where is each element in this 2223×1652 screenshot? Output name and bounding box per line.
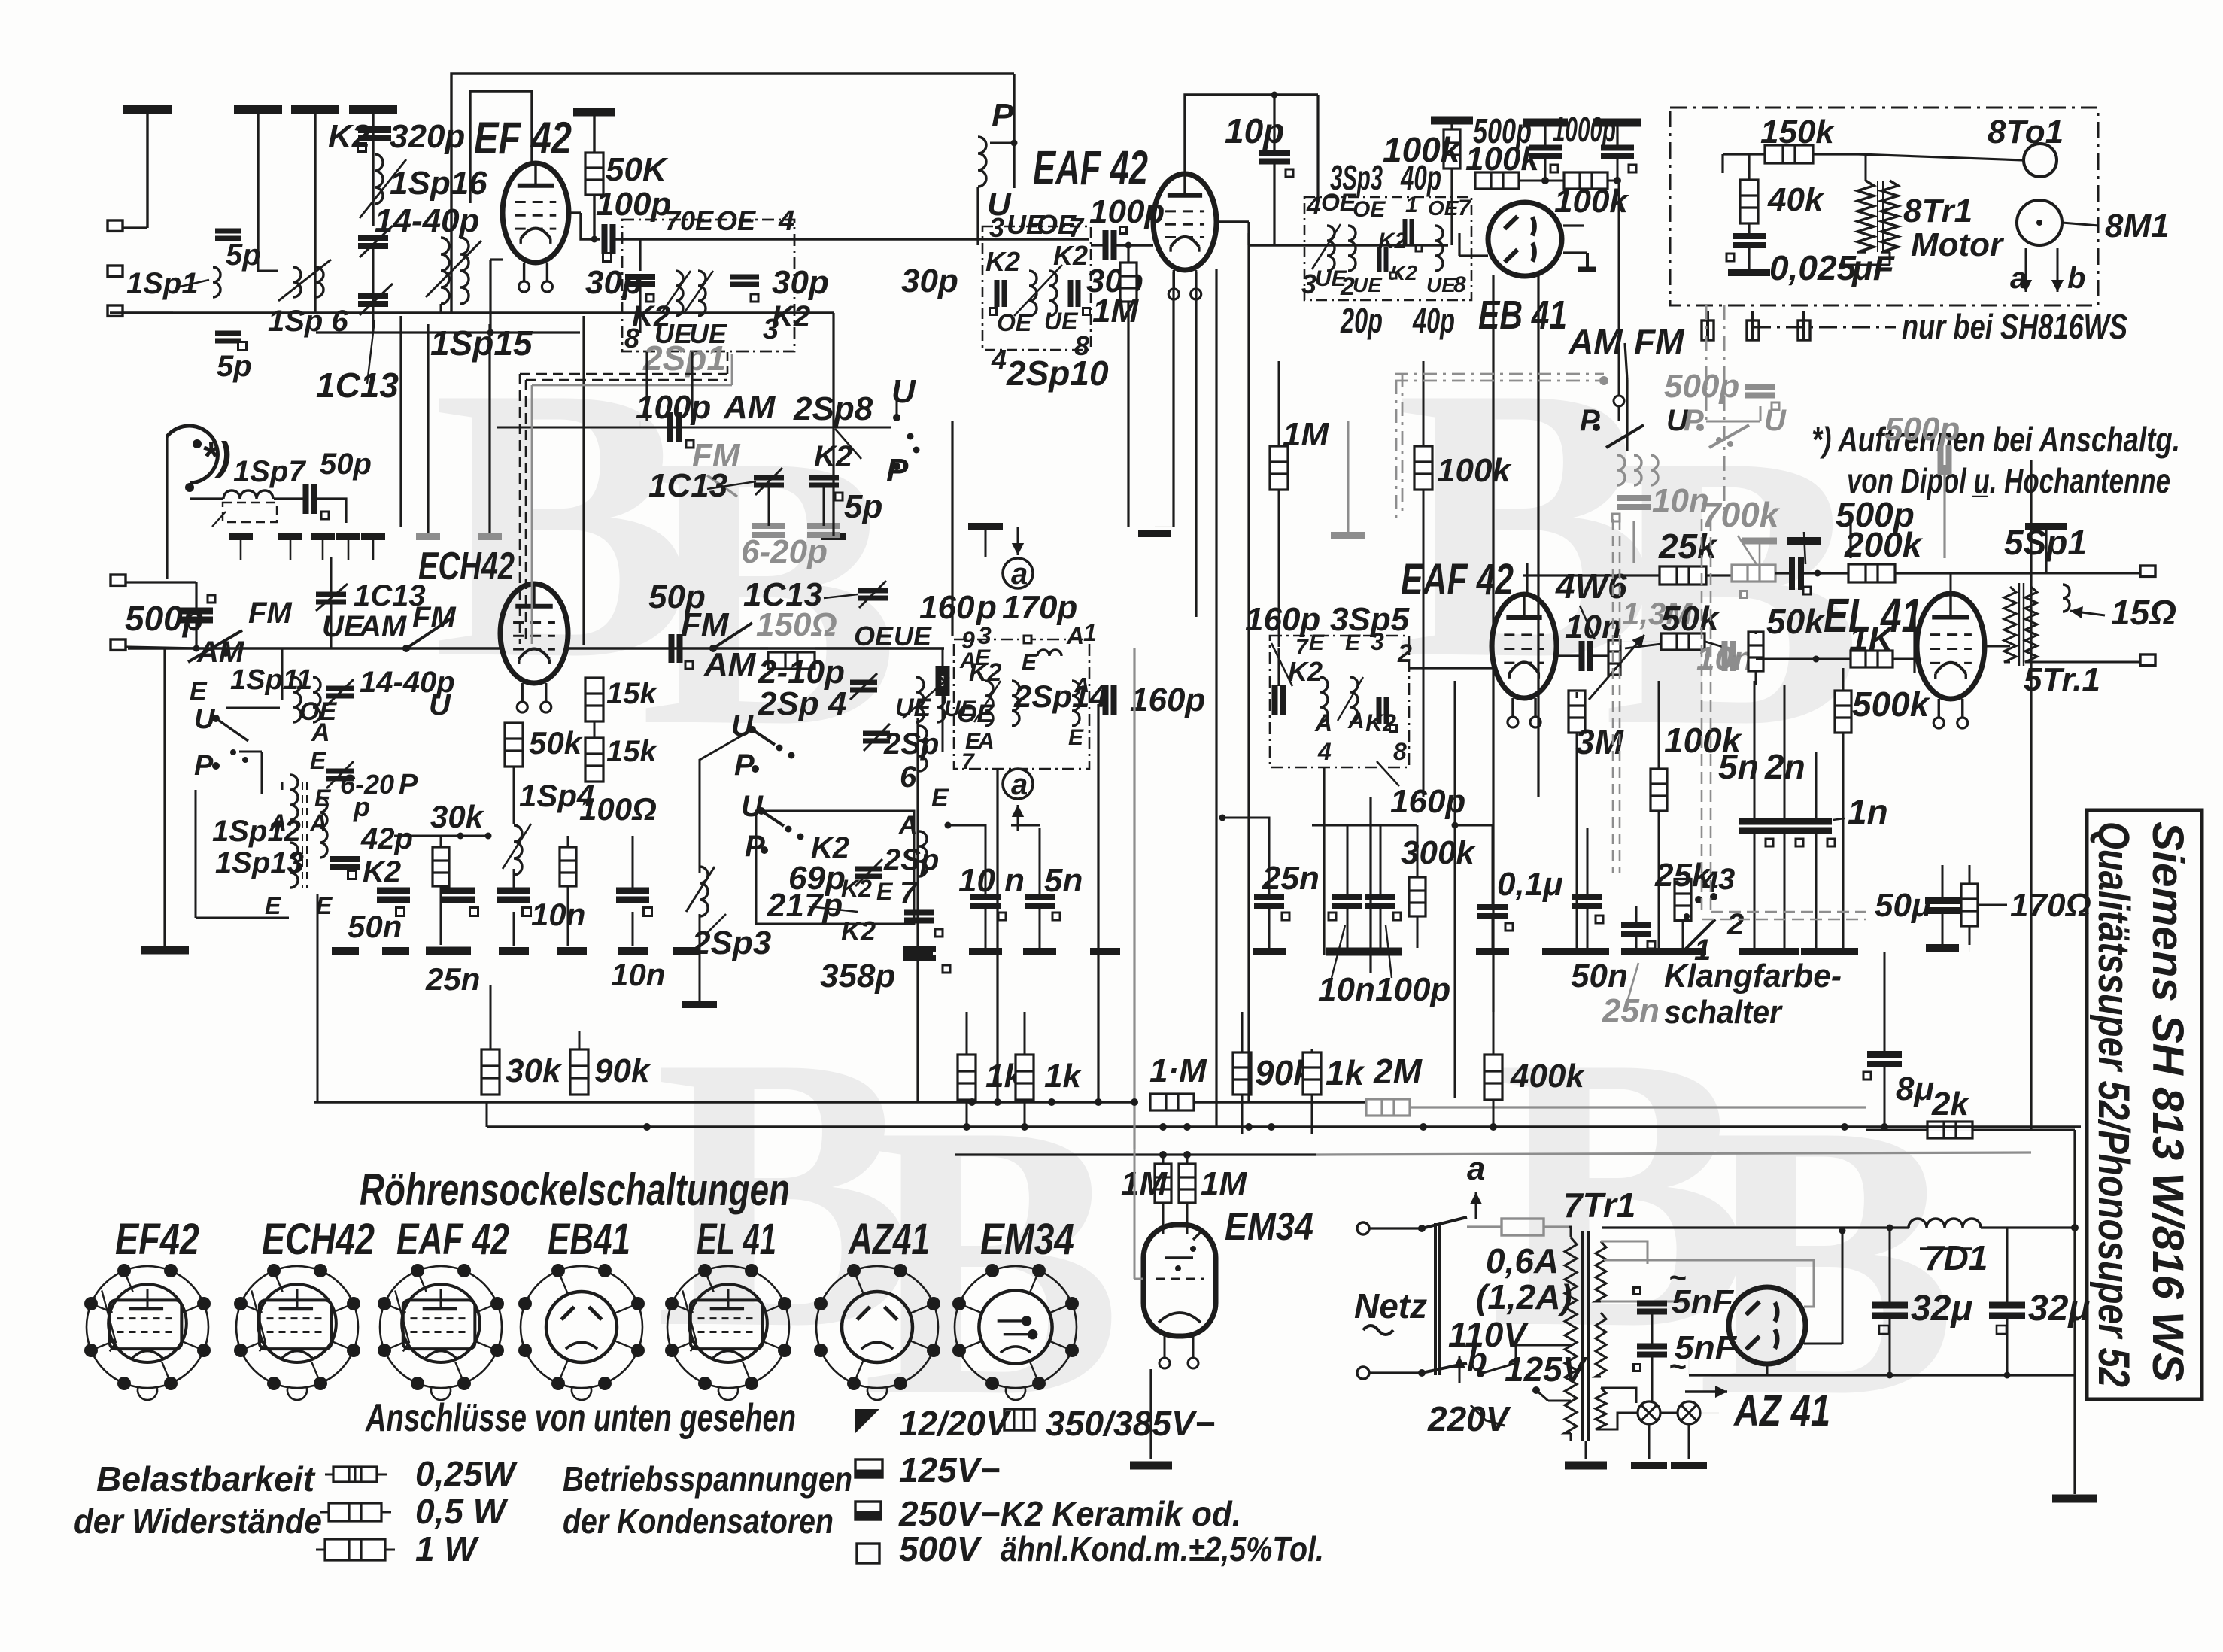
svg-text:schalter: schalter [1664, 994, 1784, 1031]
svg-text:7Tr1: 7Tr1 [1563, 1186, 1635, 1225]
resistor 30k [433, 847, 449, 886]
wire [146, 110, 148, 228]
svg-text:1Sp12: 1Sp12 [212, 815, 301, 848]
svg-text:E: E [876, 878, 894, 905]
svg-text:Betriebsspannungen: Betriebsspannungen [563, 1459, 852, 1499]
svg-text:50p: 50p [320, 448, 372, 481]
svg-text:25n: 25n [425, 961, 480, 997]
svg-text:50K: 50K [606, 151, 669, 188]
wire main input bus [110, 311, 451, 314]
tube EL41 [1917, 594, 1985, 699]
wire vertical v2585 [1943, 465, 1945, 558]
coil 1Sp6 variable [293, 267, 301, 297]
svg-text:4: 4 [991, 344, 1007, 375]
svg-text:40p: 40p [1412, 301, 1455, 340]
svg-text:p: p [976, 589, 997, 626]
svg-text:U: U [429, 688, 451, 721]
coil 2Sp7 [919, 831, 927, 876]
svg-text:K2: K2 [328, 118, 371, 155]
choke 7D1 [1909, 1219, 1981, 1228]
ground [1326, 948, 1402, 956]
resistor 3M [1569, 691, 1585, 733]
svg-text:25n: 25n [1602, 992, 1660, 1029]
antenna loop symbol [167, 426, 217, 483]
wire vertical v776 [582, 316, 585, 645]
coil 2Sp14 pri [985, 681, 993, 726]
wire [760, 647, 768, 649]
node 8To1 [2024, 144, 2057, 177]
svg-text:100p: 100p [596, 186, 671, 223]
svg-text:8To1: 8To1 [1988, 114, 2064, 150]
ground [969, 948, 1002, 955]
svg-text:4: 4 [1306, 192, 1321, 220]
svg-text:E: E [1309, 630, 1325, 655]
wire [1733, 655, 1747, 657]
lamp a [1638, 1401, 1660, 1424]
svg-text:30k: 30k [430, 799, 485, 834]
svg-text:K2: K2 [1288, 656, 1323, 687]
svg-text:1n: 1n [1848, 792, 1888, 831]
capacitor K2 320p [358, 130, 391, 138]
svg-text:A: A [898, 811, 918, 840]
wire gray top right horizontal [1760, 406, 1762, 421]
svg-text:40k: 40k [1767, 181, 1825, 218]
svg-text:nur bei SH816WS: nur bei SH816WS [1902, 307, 2127, 346]
wire vertical v1760 top [1323, 767, 1325, 955]
svg-text:8Tr1: 8Tr1 [1903, 193, 1972, 229]
svg-text:P: P [992, 97, 1014, 134]
svg-text:3: 3 [1371, 628, 1384, 655]
svg-text:1k: 1k [1326, 1053, 1366, 1092]
svg-text:10n: 10n [611, 957, 665, 992]
motor unit box dash-dot [1670, 108, 2098, 305]
wire switch links [226, 707, 280, 709]
svg-text:100k: 100k [1437, 452, 1512, 489]
capacitor 30p K2 IF1b [730, 277, 759, 284]
svg-text:250V−: 250V− [898, 1494, 1000, 1533]
svg-text:1M: 1M [1092, 293, 1139, 329]
wire [2073, 1130, 2076, 1228]
svg-text:2Sp 4: 2Sp 4 [758, 685, 846, 722]
capacitor 5nF a [1637, 1304, 1667, 1312]
wire el41 plate [1985, 645, 2010, 648]
wire [768, 486, 770, 526]
svg-text:U: U [731, 709, 754, 742]
wire EAF42 pins down [1172, 272, 1174, 527]
svg-text:UE: UE [1353, 273, 1383, 296]
resistor 90k bottom [570, 1049, 588, 1095]
svg-text:20p: 20p [1340, 301, 1383, 340]
resistor 200k [1801, 572, 1849, 574]
wire [372, 247, 375, 313]
node antenna terminals [108, 220, 123, 231]
wire [1617, 156, 1619, 181]
svg-text:ähnl.Kond.m.±2,5%Tol.: ähnl.Kond.m.±2,5%Tol. [1001, 1529, 1324, 1568]
svg-text:1Sp7: 1Sp7 [233, 455, 306, 488]
wire [440, 304, 442, 313]
svg-text:1M: 1M [1201, 1165, 1247, 1202]
svg-text:a: a [1467, 1150, 1485, 1187]
coil 15ohm [2063, 585, 2070, 612]
ground bar 1108 [821, 533, 846, 540]
svg-text:200k: 200k [1844, 525, 1924, 564]
node mains terminals [1357, 1222, 1369, 1234]
resistor 25k [1660, 566, 1706, 585]
svg-text:4: 4 [778, 205, 794, 237]
capacitor 0.025uF [1733, 236, 1766, 245]
capacitor 5p bottom [215, 333, 241, 341]
svg-text:*) Auftrennen bei Anschaltg.: *) Auftrennen bei Anschaltg. [1812, 420, 2180, 459]
ground [1253, 948, 1286, 955]
coil 1Sp4 [514, 825, 522, 875]
wire vertical v1326 [996, 769, 998, 1102]
svg-text:3M: 3M [1575, 722, 1625, 761]
wire vertical v1508 [1133, 648, 1135, 1149]
svg-text:der Kondensatoren: der Kondensatoren [563, 1502, 834, 1541]
trimmer 6-20p [326, 771, 354, 779]
speaker terminals [2140, 566, 2155, 576]
wire vertical v569 [427, 324, 429, 533]
svg-text:Siemens SH 813 W/816 WS: Siemens SH 813 W/816 WS [2143, 821, 2192, 1382]
wire motor dashdot down [1705, 305, 1708, 421]
resistor 100k h1 [1475, 172, 1519, 189]
svg-text:E: E [1068, 725, 1084, 750]
lamp b [1678, 1401, 1700, 1424]
socket AZ41 [816, 1266, 938, 1400]
wire klang dash vertical [1701, 519, 1703, 912]
resistor 700k gray [1732, 565, 1775, 582]
coil 2Sp14 ter [1072, 681, 1080, 726]
svg-text:500p: 500p [1664, 368, 1739, 405]
capacitor K2 (3Sp5 right) [1379, 697, 1386, 724]
wire vertical v651 [488, 324, 490, 533]
svg-text:2Sp: 2Sp [883, 727, 939, 761]
svg-text:2Sp: 2Sp [883, 843, 939, 876]
resistor 30k bottom [481, 1049, 500, 1095]
svg-text:FM: FM [248, 597, 293, 630]
svg-text:3Sp5: 3Sp5 [1330, 601, 1410, 638]
node a circle bottom [1003, 769, 1033, 799]
wire [372, 110, 374, 226]
wire grid return y442 [316, 331, 580, 333]
capacitor 25n [442, 891, 475, 900]
wire vertical v2700top [2030, 460, 2032, 563]
svg-text:EL 41: EL 41 [697, 1215, 776, 1264]
svg-text:AZ 41: AZ 41 [1733, 1386, 1830, 1435]
wire 1Sp13 return [317, 894, 319, 1102]
wire pot dash pair [1612, 519, 1614, 873]
ground [1542, 948, 1572, 955]
socket EB41 [521, 1266, 642, 1400]
svg-text:EAF 42: EAF 42 [1401, 555, 1514, 604]
svg-text:10n: 10n [531, 897, 585, 932]
svg-text:A: A [269, 809, 287, 837]
svg-text:4: 4 [1317, 738, 1332, 765]
svg-text:OE: OE [1321, 189, 1357, 216]
svg-text:AZ41: AZ41 [847, 1215, 930, 1264]
svg-text:10n: 10n [1696, 640, 1754, 677]
wire under EB41 [1458, 233, 1460, 256]
svg-text:E: E [1345, 630, 1361, 655]
svg-text:0,25W: 0,25W [415, 1454, 518, 1493]
svg-text:K2: K2 [841, 916, 876, 946]
svg-text:2Sp3: 2Sp3 [691, 925, 771, 961]
capacitor 2n [1769, 821, 1800, 831]
svg-text:AM: AM [703, 646, 757, 683]
svg-text:32μ: 32μ [2028, 1289, 2090, 1329]
ground row mid-left [229, 533, 253, 540]
svg-text:UE: UE [895, 694, 932, 722]
tube EM34 schematic [1143, 1225, 1216, 1336]
svg-text:1000p: 1000p [1553, 110, 1616, 149]
coil 1Sp7 [223, 490, 273, 499]
node plug stubs under motor box [1706, 311, 1709, 340]
svg-text:6: 6 [900, 761, 917, 794]
svg-text:2M: 2M [1373, 1052, 1423, 1091]
svg-text:400k: 400k [1510, 1058, 1586, 1095]
wire [1013, 74, 1015, 188]
svg-text:150Ω: 150Ω [756, 606, 837, 643]
svg-text:160p: 160p [1130, 682, 1205, 718]
title box [2087, 810, 2202, 1399]
coil 1Sp15 oscillator coupling [441, 238, 449, 304]
svg-text:2: 2 [1397, 639, 1412, 668]
svg-text:EB41: EB41 [548, 1215, 630, 1264]
wire vertical v1985 [1492, 275, 1494, 1012]
svg-text:350/385V−: 350/385V− [1046, 1404, 1215, 1443]
svg-text:1Sp13: 1Sp13 [215, 846, 304, 879]
wire risers [240, 536, 242, 560]
svg-text:1M: 1M [1283, 416, 1329, 453]
svg-text:E: E [190, 677, 208, 706]
arrow to AZ41 [1685, 1390, 1727, 1392]
ground right [2052, 1495, 2097, 1503]
svg-text:EM34: EM34 [1225, 1205, 1313, 1249]
svg-text:ECH42: ECH42 [262, 1215, 375, 1264]
svg-text:4W6: 4W6 [1555, 566, 1627, 606]
coil 2Sp10 sec [1049, 271, 1057, 316]
svg-text:1C13: 1C13 [648, 467, 727, 504]
svg-text:E: E [310, 747, 327, 774]
wire vertical v2045 [1537, 275, 1539, 797]
svg-text:50k: 50k [529, 725, 584, 761]
wire [257, 110, 259, 256]
transformer 3Sp5 box [1270, 636, 1409, 767]
svg-text:P: P [886, 452, 909, 489]
capacitor 10n b [616, 891, 649, 900]
trimmer 1C13b [358, 296, 388, 304]
capacitor 6-20p pair [752, 526, 785, 535]
svg-text:E: E [265, 892, 282, 919]
tube AZ41 power [1729, 1287, 1805, 1364]
svg-text:A: A [311, 718, 330, 747]
resistor 1M [1120, 263, 1137, 302]
label nur bei SH816WS [1753, 326, 1896, 329]
svg-text:P: P [1580, 404, 1600, 437]
resistor 1k b [1016, 1055, 1034, 1100]
svg-text:E: E [314, 785, 332, 812]
resistor 400k [1484, 1055, 1502, 1100]
coil 2Sp3 [700, 867, 708, 916]
wire AVC dashed bundle horizontal [520, 373, 727, 375]
svg-text:P: P [1684, 404, 1704, 437]
svg-text:100k: 100k [1383, 130, 1462, 169]
svg-text:Klangfarbe-: Klangfarbe- [1664, 958, 1842, 995]
resistor 500k [1835, 691, 1851, 733]
tube EF42 [503, 163, 569, 263]
wire EAF42-2 anode [1526, 563, 1528, 593]
svg-text:150k: 150k [1760, 114, 1836, 150]
legend resistor 1W [325, 1539, 385, 1560]
svg-text:6-20p: 6-20p [741, 533, 828, 570]
wire EF42 frame [451, 74, 792, 313]
svg-text:160: 160 [919, 589, 975, 626]
ground lamps [1631, 1462, 1667, 1469]
svg-text:Belastbarkeit: Belastbarkeit [96, 1459, 316, 1499]
capacitor 30p grid [639, 239, 641, 271]
wire 1Sp12 box [195, 790, 197, 918]
wire vertical v1700b [1277, 648, 1280, 686]
svg-text:7: 7 [1068, 212, 1085, 243]
svg-text:50n: 50n [348, 909, 402, 944]
wire grid line [1557, 654, 1581, 657]
ground 500p top [1787, 537, 1821, 545]
capacitor 20p [1380, 247, 1386, 272]
svg-text:ECH42: ECH42 [418, 545, 515, 588]
resistor 100k (eaf2) [1651, 769, 1667, 811]
coil 3Sp3 pri [1327, 226, 1335, 271]
capacitor 30p right [1071, 280, 1078, 307]
ground top1 [123, 105, 172, 114]
svg-text:32μ: 32μ [1911, 1289, 1972, 1329]
ground left big [141, 946, 189, 955]
resistor 15k a [585, 678, 603, 721]
resistor 40k [1740, 180, 1758, 223]
ground top3 [291, 105, 339, 114]
wire bus 2Sp8 [497, 427, 891, 429]
svg-text:30p: 30p [901, 263, 958, 299]
coil 3Sp5 pri [1320, 677, 1328, 722]
svg-text:170p: 170p [1002, 589, 1077, 626]
svg-text:A: A [977, 729, 995, 754]
wire [1563, 224, 1584, 226]
potentiometer 4W6 [1608, 640, 1620, 675]
svg-text:5Tr.1: 5Tr.1 [2024, 661, 2100, 698]
wire vertical v1266 [951, 421, 953, 636]
capacitor 5p top [215, 231, 241, 238]
svg-text:der Widerstände: der Widerstände [74, 1502, 322, 1541]
wire vertical v860 [645, 352, 648, 421]
svg-text:7: 7 [961, 749, 975, 774]
svg-text:A: A [1066, 622, 1084, 649]
svg-text:100p: 100p [1375, 971, 1450, 1008]
svg-text:3: 3 [989, 212, 1004, 243]
wire EB41 right down [1625, 343, 1627, 380]
capacitor 10n gray [1617, 455, 1625, 485]
svg-text:(1,2A): (1,2A) [1476, 1277, 1572, 1316]
svg-text:2k: 2k [1931, 1086, 1970, 1122]
resistor 1M inline [1150, 1094, 1194, 1110]
wire vertical v1934 [1454, 681, 1456, 1098]
wire vertical v533 [399, 316, 402, 527]
socket EAF42 [380, 1266, 502, 1400]
motor 8M1 [2017, 200, 2062, 245]
wire vertical v1108 [832, 313, 834, 536]
wire EL41 screen [1913, 602, 1915, 673]
capacitor 8u [1867, 1055, 1902, 1064]
transformer 2Sp10 box [982, 226, 1091, 350]
svg-text:8: 8 [1393, 738, 1407, 765]
svg-text:8μ: 8μ [1896, 1070, 1934, 1107]
tube EAF42 second [1492, 594, 1556, 698]
wire main grid bus y862 [128, 647, 501, 649]
svg-text:5p: 5p [844, 488, 882, 525]
wire [281, 648, 284, 700]
svg-text:K2: K2 [1053, 240, 1088, 271]
transformer 2Sp14 box [954, 639, 1089, 769]
svg-text:0,5 W: 0,5 W [415, 1492, 509, 1531]
svg-text:125V−: 125V− [899, 1450, 1000, 1490]
resistor 50K anode [573, 108, 615, 117]
svg-text:P: P [399, 769, 418, 800]
heater winding to AZ41 [1601, 1241, 1648, 1264]
wire [258, 256, 278, 271]
trimmer 1C13 mid [316, 594, 346, 602]
legend resistor 0.5W [329, 1503, 381, 1521]
svg-text:5n: 5n [1718, 747, 1759, 786]
svg-text:K2: K2 [841, 875, 872, 902]
svg-text:E: E [1022, 650, 1037, 675]
capacitor 10n gray mid [1725, 641, 1733, 671]
svg-text:5nF: 5nF [1672, 1283, 1734, 1320]
tube EM34 pins [1164, 1336, 1166, 1359]
coil 1Sp1 [213, 267, 220, 297]
wire [1216, 220, 1249, 223]
svg-text:AM: AM [359, 610, 408, 643]
switch mains [1369, 1227, 1422, 1229]
capacitor K2 5p [809, 478, 839, 485]
svg-text:50n: 50n [1571, 958, 1628, 995]
resistor 150k [1765, 145, 1813, 163]
svg-text:Qualitätssuper 52/Phonosuper 5: Qualitätssuper 52/Phonosuper 52 [2089, 821, 2138, 1387]
wire main bus y416 extension [451, 311, 834, 314]
resistor 90k c [1233, 1052, 1251, 1095]
socket EM34 [955, 1266, 1077, 1400]
wire bus B+ 2 [487, 1125, 2081, 1128]
wire AM FM dash bundle [1395, 373, 1604, 375]
svg-text:30p: 30p [585, 264, 642, 301]
wire bus B+ 1 [314, 1101, 1136, 1103]
wire az41 plate black [1842, 1231, 1844, 1344]
capacitor 40p [1405, 219, 1412, 244]
wire [190, 497, 223, 500]
wire osc [699, 811, 701, 873]
svg-text:EB 41: EB 41 [1478, 293, 1567, 338]
transformer 5Tr1 [2004, 587, 2016, 662]
svg-text:3: 3 [1718, 863, 1735, 896]
coil 2Sp6 [919, 726, 927, 771]
legend resistor 0.25W [333, 1467, 377, 1482]
resistor 300k [1409, 877, 1426, 916]
resistor 1k c [1303, 1052, 1321, 1095]
trimmer 14-40p mid [326, 688, 354, 696]
legend voltage symbols [855, 1409, 879, 1433]
transformer 8Tr1 [1857, 181, 1874, 252]
svg-text:42p: 42p [360, 822, 413, 855]
label b arrow mains [1459, 1356, 1461, 1383]
svg-text:U: U [891, 373, 916, 410]
wire FM switch column [1618, 380, 1620, 421]
